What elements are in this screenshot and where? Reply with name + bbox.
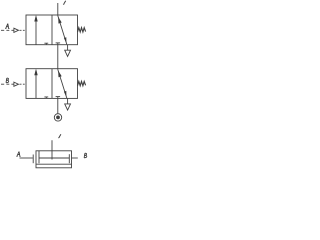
input label A (bottom): [16, 152, 20, 157]
two-pressure valve internal channel: [39, 157, 69, 159]
valve V1 body box: [26, 15, 78, 45]
valve V2 diagonal arrowhead top: [58, 71, 62, 78]
valve V1 output riser wire: [57, 3, 59, 15]
valve V2 spring: [78, 81, 86, 85]
valve V2 right-cell diagonal flow path: [58, 69, 67, 98]
two-pressure valve output riser wire: [51, 140, 53, 159]
valve V1 left-cell flow arrow: [35, 21, 37, 45]
valve V2 diagonal arrowhead bottom: [64, 91, 67, 97]
wire V2 to pressure source: [57, 97, 59, 114]
valve V1 pilot dashed line: [1, 29, 25, 31]
valve V1 exhaust stub: [67, 45, 69, 51]
valve V1 spring: [78, 28, 86, 32]
valve V2 pilot label B: [6, 78, 9, 83]
valve V2 right-cell blocked port T: [56, 96, 61, 98]
valve V2 exhaust stub: [67, 98, 69, 104]
two-pressure valve right seat bar: [68, 154, 70, 163]
valve V1 right-cell diagonal flow path: [58, 15, 67, 44]
valve V2 exhaust triangle: [65, 104, 71, 110]
valve V1 cell divider: [51, 15, 53, 45]
valve V1 left-cell blocked port T: [44, 43, 48, 45]
valve V1 exhaust triangle: [65, 50, 71, 56]
valve V1 diagonal arrowhead bottom: [64, 37, 67, 43]
pressure source symbol: [54, 114, 61, 121]
two-pressure valve left seat bar: [38, 151, 40, 163]
input A piston bar: [32, 155, 34, 164]
valve V2 left-cell blocked port T: [44, 97, 48, 99]
valve V1 diagonal arrowhead top: [58, 17, 62, 24]
input label B (bottom): [84, 153, 87, 158]
valve V1 right-cell blocked port T: [56, 42, 61, 44]
valve V2 pilot dashed line: [1, 83, 25, 85]
two-pressure valve body box: [36, 151, 72, 168]
two-pressure valve internal bottom wall: [36, 163, 72, 165]
valve V1 pilot label A: [5, 24, 9, 29]
wire V1 to V2: [57, 43, 59, 69]
input B wire: [72, 157, 78, 159]
input A wire: [20, 157, 33, 159]
valve V2 cell divider: [51, 69, 53, 99]
valve V2 pilot arrowhead: [14, 82, 19, 86]
valve V2 left-cell flow arrow: [35, 74, 37, 98]
node label Y (bottom): [58, 134, 61, 138]
valve V1 pilot arrowhead: [14, 28, 19, 32]
valve V2 body box: [26, 69, 78, 99]
node label Y (top): [63, 1, 66, 5]
